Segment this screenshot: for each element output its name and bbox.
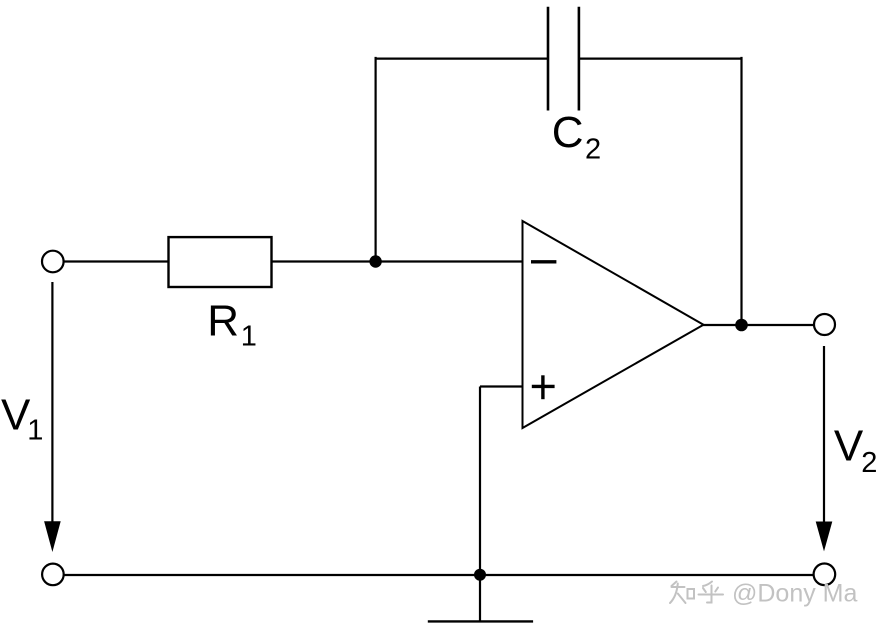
wire op-amp output to terminal (703, 324, 814, 326)
op-amp plus sign (532, 375, 555, 399)
svg-text:1: 1 (27, 415, 43, 447)
label V2 (834, 421, 877, 479)
ground (428, 575, 533, 621)
watermark (670, 582, 725, 605)
V2 arrow (816, 346, 833, 551)
wire node to op-amp inverting input (376, 260, 523, 262)
svg-text:@Dony Ma: @Dony Ma (732, 580, 858, 608)
label C2 (552, 108, 601, 166)
capacitor C2 (548, 7, 579, 111)
wire feedback vertical up (375, 57, 377, 262)
svg-text:2: 2 (585, 134, 601, 166)
op-amp U1 (523, 221, 704, 428)
V1 arrow (44, 282, 61, 552)
terminal bottom right (814, 564, 836, 586)
terminal input top left (42, 251, 64, 273)
wire capacitor to top right corner (579, 57, 742, 59)
op-amp minus sign (531, 260, 556, 263)
terminal output top right (814, 314, 835, 335)
svg-text:V: V (834, 421, 864, 470)
svg-text:C: C (552, 108, 584, 157)
label V1 (1, 391, 43, 447)
junction node at bottom rail (474, 569, 486, 581)
wire non-inverting input vertical down (479, 387, 481, 576)
wire input from terminal to R1 (63, 260, 168, 262)
wire R1 to inverting input node (272, 260, 376, 262)
junction node at output (735, 319, 748, 332)
wire non-inverting input horizontal (480, 385, 523, 387)
junction node at inverting input (369, 255, 381, 267)
wire feedback top left to capacitor (375, 57, 549, 59)
svg-text:1: 1 (241, 321, 257, 353)
resistor R1 (169, 237, 272, 287)
svg-text:2: 2 (861, 447, 877, 479)
svg-text:R: R (207, 297, 239, 346)
label R1 (207, 297, 257, 353)
terminal bottom left (42, 564, 64, 586)
wire feedback vertical down to output node (740, 57, 742, 325)
wire bottom rail (63, 574, 814, 576)
